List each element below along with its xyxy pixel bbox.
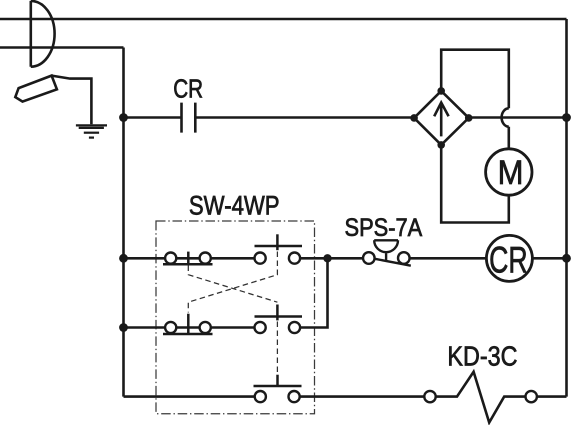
node row1/row2 tie — [323, 254, 331, 262]
node coil / right bus — [562, 254, 571, 263]
pushbutton SPS-7A blade — [375, 259, 411, 266]
contact row2 left bar — [163, 333, 213, 336]
node diamond right — [465, 114, 473, 122]
node: left bus / cap row junction — [119, 113, 128, 122]
wire motor branch right — [441, 127, 509, 223]
wire top bus — [0, 18, 567, 21]
SW-4WP enclosure box — [156, 221, 315, 414]
contact row2 right bar — [255, 315, 303, 318]
node diamond top — [437, 87, 445, 95]
pushbutton SPS-7A actuator — [374, 240, 398, 261]
svg-text:KD-3C: KD-3C — [447, 340, 517, 371]
relay coil CR — [486, 235, 532, 281]
terminal row1 c1 — [165, 253, 176, 264]
svg-text:M: M — [498, 154, 524, 192]
terminal row2 c2 — [200, 322, 211, 333]
terminal KD left — [424, 391, 435, 402]
thermal switch KD-3C zigzag — [436, 372, 526, 423]
node left bus / row2 — [119, 323, 128, 332]
terminal row3 c1 — [255, 391, 266, 402]
wire hop crossover — [502, 108, 509, 126]
contact row2 right stem — [276, 305, 279, 321]
terminal row2 c1 — [165, 322, 176, 333]
contact row1 right bar — [255, 245, 303, 248]
mech link X arm A — [188, 266, 277, 303]
wire cap row right — [469, 116, 567, 119]
pushbutton terminal left — [363, 252, 375, 264]
terminal row2 c4 — [289, 322, 300, 333]
bell gong B1 — [31, 1, 55, 67]
chime striker — [15, 76, 57, 102]
wire motor branch top — [441, 50, 509, 109]
wire left bus — [122, 48, 125, 397]
svg-text:CR: CR — [489, 239, 528, 281]
node cap row / right bus — [562, 113, 571, 122]
wire second feed — [0, 46, 124, 49]
contact CR plates — [182, 103, 196, 133]
mech link X arm B — [188, 252, 277, 313]
contact row1 left stem — [187, 252, 190, 265]
wire right bus — [565, 19, 568, 397]
node diamond bottom — [437, 141, 445, 149]
contact row2 left stem — [187, 314, 190, 334]
contact row3 bar — [254, 385, 302, 388]
wire SPS to coil — [410, 257, 487, 260]
terminal row3 c2 — [289, 391, 300, 402]
mech link row2-row3 — [276, 322, 278, 374]
svg-text:SPS-7A: SPS-7A — [345, 215, 423, 242]
wire cap row middle — [195, 116, 414, 119]
svg-text:SW-4WP: SW-4WP — [189, 190, 280, 220]
wire row2 — [124, 258, 328, 327]
wire KD to right bus — [537, 395, 567, 398]
contact row1 right stem — [276, 234, 279, 250]
motor M — [486, 149, 532, 195]
terminal row1 c2 — [200, 253, 211, 264]
terminal row1 c4 — [289, 253, 300, 264]
rectifier arrow — [434, 103, 448, 137]
terminal row2 c3 — [255, 322, 266, 333]
contact row1 left bar — [163, 263, 213, 266]
wire striker to ground — [52, 76, 92, 125]
wire row1 — [124, 257, 364, 260]
wire row3 — [124, 395, 425, 398]
svg-text:CR: CR — [173, 76, 203, 104]
wire coil to right bus — [532, 257, 566, 260]
terminal KD right — [526, 391, 537, 402]
ground — [76, 125, 107, 137]
contact row3 stem — [276, 375, 279, 386]
node diamond left — [410, 114, 418, 122]
wire cap row left — [124, 116, 182, 119]
terminal row1 c3 — [255, 253, 266, 264]
node left bus / row1 — [119, 254, 128, 263]
pushbutton terminal right — [398, 252, 410, 264]
rectifier diamond — [414, 91, 469, 145]
